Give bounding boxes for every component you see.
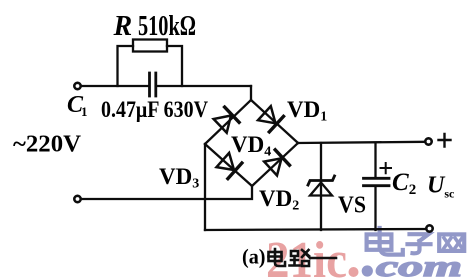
svg-text:Usc: Usc: [427, 173, 455, 201]
wire: resistor left stub: [118, 46, 134, 86]
wire: top AC line left of C1: [81, 85, 149, 87]
char dian (caption): [269, 249, 286, 266]
plus sign output: [439, 134, 451, 147]
capacitor C1 plates: [150, 73, 156, 96]
svg-text:VD2: VD2: [259, 186, 299, 214]
schematic wires and symbols: [74, 40, 450, 232]
watermark .com: [362, 250, 462, 279]
svg-text:VD1: VD1: [287, 97, 327, 125]
svg-text:VD4: VD4: [231, 132, 271, 160]
capacitor C2 plates: [364, 178, 390, 185]
wire: top AC line right of C1: [157, 85, 251, 87]
bridge: wire left-bottom branch: [205, 144, 252, 186]
bridge: wire bottom-right branch: [252, 143, 298, 186]
diode VD4: [214, 107, 240, 133]
wire: DC minus drop from left node: [204, 144, 206, 230]
caption dianlu: [269, 249, 337, 266]
zener diode VS: [308, 176, 335, 196]
wire: bottom rail: [205, 229, 426, 230]
watermark dianziwang: [367, 228, 465, 255]
terminal top-left: [74, 83, 80, 89]
svg-text:510kΩ: 510kΩ: [138, 11, 196, 42]
caption dash: [311, 257, 336, 260]
svg-text:VS: VS: [338, 193, 366, 219]
svg-text:(a): (a): [242, 245, 266, 269]
wire: resistor right stub: [167, 46, 182, 86]
bridge: wire top-right branch: [251, 100, 298, 143]
wire: plus rail: [298, 142, 425, 143]
svg-text:R: R: [113, 11, 133, 42]
svg-text:C2: C2: [392, 169, 416, 198]
svg-text:0.47μF 630V: 0.47μF 630V: [101, 97, 208, 123]
svg-text:~220V: ~220V: [13, 132, 82, 158]
terminal bottom-left: [74, 196, 80, 202]
char wang: [439, 234, 464, 251]
char zi: [408, 234, 431, 253]
diode VD2: [264, 150, 289, 176]
char lu (caption): [290, 250, 311, 266]
terminal top-right: [425, 138, 431, 144]
wire: bottom AC line to bridge bottom node: [81, 186, 252, 199]
svg-text:C1: C1: [67, 92, 88, 119]
bridge: wire left-top branch: [205, 100, 251, 144]
svg-text:VD3: VD3: [159, 164, 199, 192]
resistor R body: [133, 40, 167, 52]
plus sign of C2: [381, 163, 392, 173]
diode VD3: [217, 153, 242, 179]
diode VD1: [258, 106, 284, 132]
wire: C2 branch vertical: [374, 143, 376, 230]
wire: zener branch vertical: [320, 143, 322, 230]
watermark 21ic: [266, 232, 359, 279]
wire: drop to bridge top node: [250, 86, 252, 100]
char dian: [367, 228, 403, 255]
terminal bottom-right: [426, 225, 432, 231]
